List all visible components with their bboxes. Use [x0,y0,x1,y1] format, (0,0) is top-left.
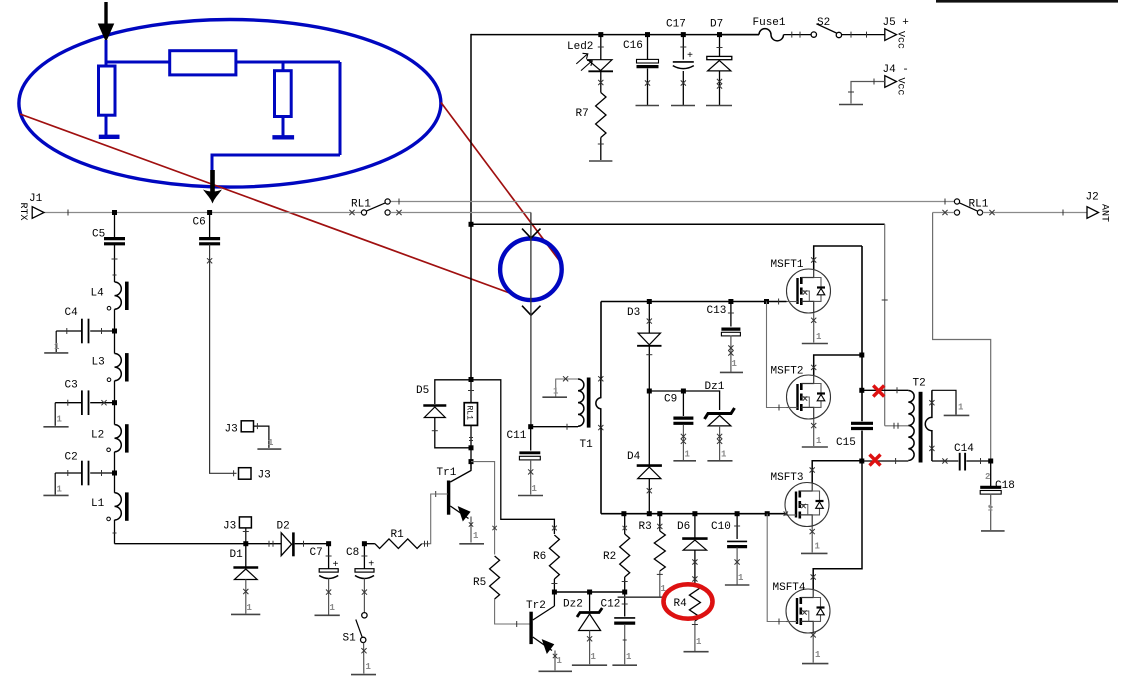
svg-text:2: 2 [985,472,990,482]
wire D3 to mid node [648,346,650,391]
node D3/D4 mid junction [647,389,652,394]
svg-text:1: 1 [473,531,479,541]
transformer T1 primary [578,379,584,426]
svg-text:L4: L4 [91,288,105,300]
inductor L3 [114,331,116,354]
svg-text:J2: J2 [1086,192,1099,204]
svg-text:Vcc: Vcc [895,31,906,49]
resistor R1 [364,543,375,545]
wire Vcc feed to T2 center tap [471,223,885,225]
node C4 junction [112,329,117,334]
node C16 junction [645,32,650,37]
transformer T1 secondary [596,379,601,428]
ground D1 [231,613,260,615]
svg-text:MSFT3: MSFT3 [771,472,804,484]
zener Dz2 [589,592,591,611]
svg-text:RL1: RL1 [465,406,474,421]
node C2 junction [112,471,117,476]
capacitor C3 [90,402,114,404]
transistor Tr1 [447,481,450,515]
ground C9 [673,460,696,462]
ground Tr2 [539,670,573,672]
wire C18 to ground [990,494,992,530]
svg-text:1: 1 [57,415,63,425]
node relay coil bottom junction [469,445,474,450]
annotation red leader line left [20,114,522,298]
annotation arrow out of inset (bottom) [210,170,215,192]
wire C8 to S1 [363,579,365,613]
svg-text:L3: L3 [92,357,105,369]
svg-text:J3: J3 [223,521,236,533]
ground C16 [636,105,660,107]
diode D3 [648,302,650,334]
relay coil RL1 [470,380,472,403]
resistor R3 [659,514,661,531]
capacitor C9 [682,391,684,416]
svg-text:R3: R3 [639,521,652,533]
inset wire top node [106,61,170,64]
inductor L1 [114,473,116,493]
MOSFET MSFT1 [787,269,831,313]
inset ground (left) [99,135,120,139]
wire Tr1 emitter to ground [470,517,472,543]
svg-text:D6: D6 [677,521,690,533]
wire bus to fuse [720,34,760,36]
capacitor C11 [530,427,532,451]
wire T1 secondary bottom to lower gate bus [600,428,602,514]
wire R1 to Tr1 base [422,494,448,544]
capacitor C5 [114,213,116,239]
svg-text:Dz2: Dz2 [563,599,583,611]
ground C7 [315,614,340,616]
wire C9 to ground [682,425,684,461]
svg-text:ANT: ANT [1099,204,1110,222]
svg-text:1: 1 [626,652,632,662]
inset wire resistor to ground [105,115,108,135]
svg-text:D3: D3 [627,307,640,319]
capacitor C14 (series) [959,453,961,471]
zener Dz1 [705,408,735,419]
svg-text:MSFT2: MSFT2 [771,366,804,378]
node D4 junction lower bus [647,511,652,516]
node Tr2 collector junction [552,590,557,595]
node C6 junction [207,210,212,215]
svg-text:1: 1 [57,485,63,495]
annotation circle marking component on wire [500,238,562,300]
svg-text:1: 1 [958,403,964,413]
ground MSFT1 [802,343,828,345]
wire S2 to J5 [842,34,885,36]
inset wire down to exit arrow [211,154,214,186]
inset resistor (left vertical) [99,66,116,115]
wire MSFT2 drain to bus [814,355,862,375]
wire R4 to ground [694,621,696,651]
svg-text:1: 1 [815,542,821,552]
transformer T2 primary [908,391,914,461]
resistor R6 [549,535,559,579]
ground C3 [43,426,68,428]
capacitor C10 [736,514,738,539]
diode D4 [648,391,650,465]
capacitor C7 electrolytic [328,544,330,569]
ground C13 [720,371,743,373]
wire C7 to ground [328,579,330,615]
annotation red X upper [873,386,884,397]
svg-text:D4: D4 [627,451,641,463]
wire Tr1 base [431,493,448,495]
svg-text:C6: C6 [193,217,206,229]
svg-text:C10: C10 [711,521,731,533]
svg-text:C11: C11 [507,430,527,442]
relay contacts RL1 (right) [954,199,959,204]
diode D7 [719,35,721,57]
svg-text:C3: C3 [65,380,78,392]
capacitor C4 [90,330,114,332]
svg-text:J4 -: J4 - [883,64,909,76]
node D1 junction [243,541,248,546]
wire R6 supply branch [471,380,554,534]
connector J5 +Vcc [885,29,897,41]
svg-text:C2: C2 [65,452,78,464]
wire Tr2 emitter to ground [554,651,556,671]
T1 core [587,378,591,428]
svg-text:Dz1: Dz1 [705,381,725,393]
MOSFET MSFT2 [787,375,831,419]
svg-text:1: 1 [721,450,727,460]
wire T1 primary top to ground [556,379,578,397]
wire D2 to C7 [295,543,329,545]
annotation callout ellipse (magnified detail) [19,20,441,188]
svg-text:C12: C12 [601,599,621,611]
svg-text:1: 1 [247,603,253,613]
svg-text:J5 +: J5 + [883,17,909,29]
resistor R5 [490,556,500,599]
wire gate tap to MSFT2 [767,302,787,408]
MOSFET MSFT3 [785,483,829,527]
wire R7 to ground [600,138,602,161]
node C12 junction [622,590,627,595]
ground C17 [671,105,695,107]
svg-text:C4: C4 [65,307,79,319]
connector J2 ANT [1087,207,1099,219]
svg-text:S2: S2 [817,17,830,29]
wire D7 to ground [719,71,721,105]
wire RX line (top contact to right relay) [390,201,954,203]
connector J4 -Vcc [885,76,897,88]
diode D5 [423,404,446,407]
wire T2 primary bottom lead [862,460,909,462]
svg-text:1: 1 [696,637,702,647]
diode D6 [694,514,696,538]
svg-text:R7: R7 [576,108,589,120]
inset wire right side down [339,62,342,155]
annotation arrowhead above circle [522,229,541,239]
wire C11 to ground [530,460,532,495]
wire Dz1 to ground [719,426,721,460]
svg-text:C13: C13 [707,305,727,317]
wire Tr2 collector row [554,591,624,593]
wire R5 to Tr2 base [495,599,531,624]
node C17 junction [681,32,686,37]
wire T2 primary top lead [862,389,909,391]
connector J3 (lower) [239,468,252,480]
node C11 junction [528,424,533,429]
ground D7 [706,105,732,107]
wire MSFT4 source to ground [812,633,814,663]
svg-text:C18: C18 [995,480,1015,492]
wire C5 to L4 [114,244,116,282]
wire MSFT2 source to ground [813,419,815,446]
fuse Fuse1 [759,29,784,41]
capacitor C2 [90,472,114,474]
wire C6 to J3 [210,244,237,473]
svg-text:1: 1 [553,387,559,397]
wire R3 to ground [659,571,661,597]
svg-text:1: 1 [557,656,563,666]
node C5 junction [112,210,117,215]
wire Vcc top bus [471,34,759,36]
node R3 junction [657,511,662,516]
wire L2 to C2 node [114,452,116,473]
ground MSFT3 [801,552,828,554]
wire D5 to coil bottom node [435,418,471,448]
svg-text:1: 1 [815,650,821,660]
annotation red X lower [870,455,881,466]
svg-text:RTX: RTX [17,203,28,221]
capacitor C17 polarized [682,35,684,60]
ground T2 secondary [944,414,970,416]
svg-text:S1: S1 [343,633,357,645]
svg-text:C7: C7 [310,547,323,559]
svg-text:1: 1 [685,450,691,460]
svg-text:C16: C16 [623,40,643,52]
ground MSFT2 [802,446,828,448]
diode D1 [245,544,247,567]
node MSFT2 drain junction [859,353,864,358]
capacitor C13 [730,302,732,327]
ground Dz2 [572,664,607,666]
diode D2 (series) [281,533,291,556]
ground MSFT4 [802,663,828,665]
connector J1 RTX [32,207,44,219]
wire fuse to S2 [784,34,812,36]
svg-text:1: 1 [732,359,738,369]
svg-text:C15: C15 [836,437,856,449]
resistor R2 [624,514,626,534]
inset ground (right) [272,135,294,139]
svg-text:1: 1 [54,342,60,352]
ground R3 [618,596,663,598]
wire junction to D5 [435,380,471,404]
wire C10 to ground [736,548,738,585]
wire T1 secondary top to gate bus [600,302,602,379]
annotation arrow into inset (top) [104,2,107,26]
wire MSFT4 drain to bus [813,463,862,589]
wire S1 to ground [363,643,365,674]
LED Led2 [600,35,602,60]
node C7 junction [326,541,331,546]
inductor L4 [115,282,122,309]
svg-text:1: 1 [816,332,822,342]
inset resistor (right vertical) [275,71,292,117]
switch S1 [362,613,367,618]
wire drain bus x=862 lower [861,431,863,462]
wire Led2 to R7 [600,71,602,92]
svg-text:C17: C17 [666,19,686,31]
svg-text:R1: R1 [391,529,405,541]
wire J3 upper to ground [254,426,269,448]
wire Vcc rail vertical [470,34,472,380]
capacitor C16 [647,35,649,59]
wire D6 to R4 [694,550,696,584]
wire C2 to ground [55,472,82,474]
node T2 primary top junction [859,388,864,393]
wire L4 to C4 node [114,309,116,331]
wire R6 to Tr2 collector node [553,579,555,592]
svg-text:Vcc: Vcc [895,78,906,96]
svg-text:1: 1 [988,504,994,514]
node MSFT2 gate tap junction [764,299,769,304]
resistor R7 [596,93,606,138]
node Led2 junction [598,32,603,37]
wire coil bottom to Tr1 collector node [470,448,472,470]
wire MSFT3 source to ground [811,527,813,553]
inset wire bottom [212,154,340,157]
node T2 primary bottom junction [859,459,864,464]
svg-text:R5: R5 [473,577,486,589]
svg-text:+: + [687,51,693,62]
svg-text:Tr1: Tr1 [437,467,457,479]
capacitor C18 [990,461,992,486]
capacitor C12 [624,592,626,617]
ground C2 [43,494,68,496]
svg-text:1: 1 [532,484,538,494]
ground J3 upper [257,448,281,450]
node MSFT3/4 gate tap junction [765,511,770,516]
svg-text:R4: R4 [674,598,688,610]
node Tr1 collector junction [469,459,474,464]
svg-text:Led2: Led2 [567,41,593,53]
ground C10 [725,584,750,586]
capacitor C6 [209,213,211,239]
transformer T2 secondary [925,390,932,461]
ground C11 [518,495,543,497]
ground C4 [44,352,68,354]
wire D1 to ground [245,580,247,614]
wire C4 to ground [56,330,82,332]
capacitor C8 electrolytic [363,544,365,569]
svg-text:J3: J3 [225,424,238,436]
node C8 junction [362,541,367,546]
svg-text:Fuse1: Fuse1 [753,17,786,29]
connector J3 (bottom) [239,517,251,528]
ground J4 [839,104,863,106]
wire Dz2 to ground [589,631,591,665]
wire J4 to ground [851,82,885,104]
node D7 junction [717,32,722,37]
svg-text:L2: L2 [91,430,104,442]
node Vcc feed junction [469,222,474,227]
wire L3 to C3 node [114,381,116,403]
node D6 junction [692,511,697,516]
wire gate tap to MSFT4 [767,514,786,622]
resistor R4 [689,584,700,621]
T2 core [919,392,923,463]
svg-text:D5: D5 [416,385,429,397]
ground R4 [684,651,709,653]
wire MSFT1 drain to bus [814,246,862,269]
relay contacts RL1 (left) [385,199,390,204]
wire R5 branch [471,462,495,555]
wire TX feed down through annotation circle [530,213,532,427]
svg-text:J1: J1 [29,193,43,205]
ground R7 [589,160,612,162]
wire gate bus upper [601,301,787,303]
connector J3 (upper) [241,421,253,432]
MOSFET MSFT4 [786,589,830,633]
inset wire right resistor to ground [282,117,285,136]
wire gate bus lower [601,513,785,515]
inductor L2 [114,403,116,425]
svg-text:C5: C5 [92,229,105,241]
svg-text:1: 1 [330,603,336,613]
wire L1 row to D2 [115,543,282,545]
wire C11 node to T1 primary bottom [531,426,578,428]
wire C13 to ground [730,336,732,372]
wire C16 to ground [647,69,649,106]
wire L1 down to D1 row [114,520,116,544]
ground S1 [351,674,376,676]
node Dz2 junction [587,590,592,595]
svg-text:T1: T1 [580,439,594,451]
wire C17 to ground [682,71,684,105]
wire C14 to output node [966,460,990,462]
svg-text:J3: J3 [258,470,271,482]
wire T2 secondary bottom to C14 [932,460,959,462]
svg-text:RL1: RL1 [969,199,989,211]
wire relay to J2 [983,212,1087,214]
inset stub to right resistor [282,62,285,71]
wire MSFT1 source to ground [813,313,815,343]
ground Tr1 [459,543,484,545]
ground Dz1 [707,460,732,462]
wire TX line J1 to left relay [44,212,361,214]
svg-text:MSFT4: MSFT4 [773,582,806,594]
wire antenna feed from T2 [933,213,991,462]
wire T2 center tap ticks [893,423,895,429]
ground C18 [981,530,1005,532]
svg-text:RL1: RL1 [351,199,371,211]
wire MSFT3 drain to bus [812,461,862,483]
svg-text:1: 1 [366,662,372,672]
wire J3 bottom stem [245,528,247,544]
node C9 junction [681,389,686,394]
svg-text:1: 1 [591,652,597,662]
svg-text:R2: R2 [603,551,616,563]
svg-text:D2: D2 [277,521,290,533]
wire D4 to lower gate bus [648,479,650,514]
wire R2 to collector row [624,577,626,592]
node C3 junction [112,400,117,405]
svg-text:C14: C14 [954,443,974,455]
black bar top right (window edge) [936,0,1118,3]
svg-text:1: 1 [738,573,744,583]
wire drain bus x=862 upper [861,246,863,421]
wire T2 secondary top to ground [932,390,956,414]
inset wire from arrow to resistor [105,40,108,67]
svg-text:C8: C8 [346,547,359,559]
wire right relay lower contact to T2 output [933,212,955,214]
